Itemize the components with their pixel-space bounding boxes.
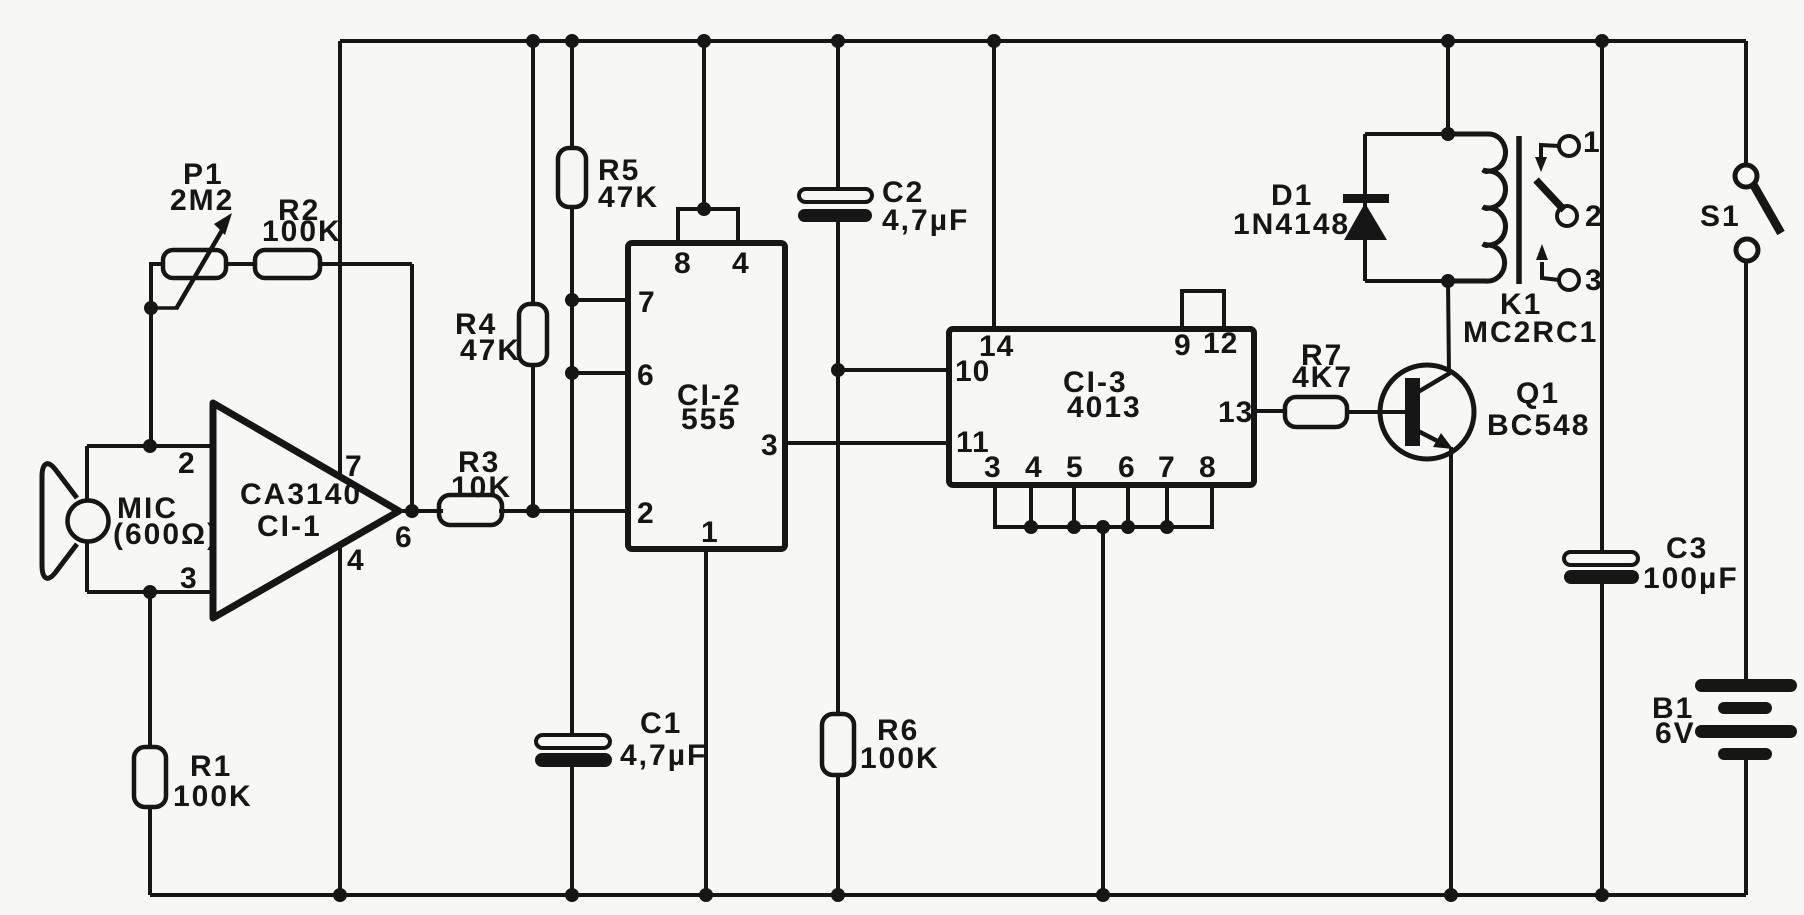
svg-text:3: 3 bbox=[1585, 264, 1604, 297]
node mic pin3 bbox=[143, 585, 157, 599]
IC U3 4013 CI-3 bbox=[949, 291, 1254, 485]
svg-text:(600Ω): (600Ω) bbox=[113, 518, 219, 551]
wire relay loop bottom bbox=[1365, 279, 1493, 283]
transistor Q1 BC548 bbox=[1380, 365, 1590, 459]
wire R4 top lead bbox=[531, 41, 535, 304]
relay contact 3 bbox=[1536, 244, 1579, 290]
wire 4013 bus to ground bbox=[1101, 527, 1105, 895]
svg-text:CI-1: CI-1 bbox=[257, 510, 322, 543]
node ground C3 bbox=[1595, 888, 1609, 902]
svg-text:100K: 100K bbox=[860, 742, 940, 775]
node bus pin4 bbox=[1024, 520, 1038, 534]
wire op-amp pin2 (mic top) bbox=[87, 444, 213, 448]
svg-text:12: 12 bbox=[1203, 327, 1238, 360]
svg-text:13: 13 bbox=[1218, 396, 1253, 429]
relay contact 1 bbox=[1535, 136, 1579, 172]
node ground op-amp bbox=[333, 888, 347, 902]
wire 4013 pin 14 to rail bbox=[992, 41, 996, 329]
node top rail relay bbox=[1441, 34, 1455, 48]
wire relay feed vertical bbox=[1446, 41, 1450, 134]
svg-text:100K: 100K bbox=[262, 215, 342, 248]
svg-text:CA3140: CA3140 bbox=[240, 478, 362, 511]
node bus pin5 bbox=[1067, 520, 1081, 534]
wire diode D1 vertical lead bbox=[1363, 134, 1367, 281]
svg-text:Q1: Q1 bbox=[1516, 377, 1560, 410]
svg-text:100K: 100K bbox=[173, 780, 253, 813]
node R4 555 pin2 bbox=[526, 504, 540, 518]
node top rail 555 bbox=[697, 34, 711, 48]
node ground Q1 emitter bbox=[1444, 888, 1458, 902]
node top rail R5 bbox=[565, 34, 579, 48]
svg-text:MC2RC1: MC2RC1 bbox=[1463, 316, 1598, 349]
wire 4013 pin 13 to R7 bbox=[1254, 409, 1285, 413]
wire op-amp output to R3 bbox=[397, 509, 443, 513]
svg-text:8: 8 bbox=[1199, 451, 1217, 484]
svg-text:4: 4 bbox=[732, 247, 750, 280]
wire 4013 pin 5 stub bbox=[1072, 485, 1076, 527]
wire R1 top lead bbox=[148, 592, 152, 747]
svg-text:10K: 10K bbox=[451, 471, 512, 504]
svg-text:R1: R1 bbox=[190, 750, 232, 783]
node top rail 4013 bbox=[987, 34, 1001, 48]
wire relay to Q1 collector bbox=[1448, 281, 1449, 374]
resistor R6 100K bbox=[822, 714, 940, 775]
wire R7 to Q1 base bbox=[1347, 410, 1406, 414]
resistor R7 4K7 bbox=[1285, 339, 1353, 427]
svg-text:6: 6 bbox=[395, 521, 413, 554]
wire 4013 pin 4 stub bbox=[1029, 485, 1033, 527]
wire op-amp supply vertical (pins 7/4) bbox=[338, 41, 342, 895]
wire C1 bottom lead bbox=[570, 766, 574, 895]
wire R1 bottom lead bbox=[148, 807, 152, 895]
relay contact 2 bbox=[1557, 206, 1577, 226]
svg-text:6: 6 bbox=[637, 359, 655, 392]
svg-text:1: 1 bbox=[1583, 126, 1602, 159]
node op-amp output bbox=[405, 504, 419, 518]
svg-text:4K7: 4K7 bbox=[1292, 361, 1353, 394]
wire 555 pin 6 bbox=[572, 371, 628, 375]
wire 555 pin 7 bbox=[572, 298, 628, 302]
svg-text:2: 2 bbox=[178, 447, 196, 480]
svg-text:1: 1 bbox=[701, 516, 719, 549]
svg-text:C3: C3 bbox=[1666, 532, 1708, 565]
relay core bar bbox=[1516, 136, 1522, 284]
wire left column P1 to pin2 bbox=[151, 264, 163, 446]
wire C2 bottom to R6 bbox=[836, 219, 840, 714]
wire R5 bottom to C1 bbox=[570, 207, 574, 737]
resistor R4 47K bbox=[455, 304, 547, 367]
svg-text:4,7µF: 4,7µF bbox=[882, 204, 969, 237]
node P1 wiper bbox=[144, 301, 158, 315]
wire 4013 pin 10 bbox=[838, 368, 949, 372]
svg-text:10: 10 bbox=[955, 355, 990, 388]
wire mic left vertical bbox=[85, 446, 89, 592]
resistor R5 47K bbox=[558, 148, 659, 214]
svg-text:2: 2 bbox=[637, 497, 655, 530]
wire R5 top lead bbox=[570, 41, 574, 148]
wire R3 to 555 pin 2 bbox=[499, 509, 628, 513]
IC U2 555 CI-2 bbox=[628, 209, 785, 549]
svg-text:7: 7 bbox=[1158, 451, 1176, 484]
node mic pin2 bbox=[143, 439, 157, 453]
svg-text:S1: S1 bbox=[1700, 200, 1741, 233]
wire S1 to battery bbox=[1744, 259, 1748, 681]
node top rail C3 bbox=[1595, 34, 1609, 48]
svg-text:6: 6 bbox=[1118, 451, 1136, 484]
svg-text:3: 3 bbox=[761, 429, 779, 462]
svg-text:1N4148: 1N4148 bbox=[1233, 208, 1350, 241]
svg-text:7: 7 bbox=[638, 286, 656, 319]
relay K1 MC2RC1 coil bbox=[1448, 134, 1519, 284]
svg-text:5: 5 bbox=[1066, 451, 1084, 484]
svg-text:BC548: BC548 bbox=[1487, 409, 1590, 442]
wire C3 bottom lead bbox=[1600, 583, 1604, 895]
node ground R6 bbox=[831, 888, 845, 902]
node ground C1 bbox=[565, 888, 579, 902]
capacitor C2 4,7uF bbox=[798, 176, 969, 237]
node relay top bbox=[1441, 127, 1455, 141]
wire C2 top lead bbox=[836, 41, 840, 190]
node 555 pin6 bbox=[565, 366, 579, 380]
svg-text:3: 3 bbox=[984, 451, 1002, 484]
svg-text:6V: 6V bbox=[1655, 717, 1696, 750]
node 4013 pin10 C2 bbox=[831, 363, 845, 377]
svg-text:4: 4 bbox=[1025, 451, 1043, 484]
wire Q1 emitter to ground bbox=[1449, 447, 1453, 895]
node bus pin6 bbox=[1121, 520, 1135, 534]
wire bottom ground rail bbox=[150, 893, 1746, 897]
svg-text:555: 555 bbox=[681, 403, 737, 436]
svg-text:100µF: 100µF bbox=[1643, 562, 1739, 595]
capacitor C1 4,7uF bbox=[535, 707, 707, 772]
svg-text:9: 9 bbox=[1174, 329, 1192, 362]
node 555 notch bbox=[697, 202, 711, 216]
wire C3 top lead bbox=[1600, 41, 1604, 554]
node ground 555 pin1 bbox=[699, 888, 713, 902]
op-amp U1 CA3140 CI-1 bbox=[213, 403, 399, 618]
svg-text:4013: 4013 bbox=[1067, 391, 1142, 424]
battery B1 6V bbox=[1695, 679, 1797, 760]
potentiometer P1 2M2 bbox=[151, 158, 234, 309]
resistor R3 10K bbox=[439, 446, 512, 525]
node top rail C2 bbox=[831, 34, 845, 48]
svg-text:7: 7 bbox=[345, 450, 363, 483]
svg-text:47K: 47K bbox=[460, 334, 521, 367]
capacitor C3 100uF bbox=[1564, 532, 1739, 595]
svg-text:47K: 47K bbox=[598, 181, 659, 214]
svg-text:4: 4 bbox=[347, 544, 365, 577]
svg-text:2: 2 bbox=[1585, 200, 1604, 233]
node 555 pin7 bbox=[565, 293, 579, 307]
node top rail R4 bbox=[526, 34, 540, 48]
resistor R2 100K bbox=[255, 194, 342, 278]
wire 4013 ground bus bbox=[995, 485, 1212, 527]
wire feedback vertical to op-amp output bbox=[410, 264, 414, 511]
wire top supply rail bbox=[340, 39, 1746, 43]
wire 4013 pin 6 stub bbox=[1126, 485, 1130, 527]
wire battery to ground rail bbox=[1744, 757, 1748, 895]
wire R6 bottom lead bbox=[836, 775, 840, 895]
wire 555 pin 3 to 4013 pin 11 bbox=[785, 441, 949, 445]
wire S1 top lead bbox=[1744, 41, 1748, 166]
microphone MIC (600 ohm) bbox=[42, 464, 109, 579]
wire 4013 pin 7 stub bbox=[1165, 485, 1169, 527]
switch S1 bbox=[1700, 165, 1781, 261]
node bus center bbox=[1096, 520, 1110, 534]
relay moving arm bbox=[1536, 180, 1564, 210]
wire 555 pin 1 to ground bbox=[704, 549, 708, 895]
wire P1 to R2 bbox=[226, 262, 255, 266]
wire R2 to feedback corner bbox=[320, 262, 412, 266]
wire op-amp pin3 (mic bottom) bbox=[87, 590, 213, 594]
svg-text:3: 3 bbox=[180, 562, 198, 595]
wire relay loop top bbox=[1365, 132, 1493, 136]
svg-text:2M2: 2M2 bbox=[170, 184, 234, 217]
wire R4 bottom lead bbox=[531, 365, 535, 511]
svg-text:4,7µF: 4,7µF bbox=[620, 739, 707, 772]
wire 555 notch to rail bbox=[702, 41, 706, 209]
resistor R1 100K bbox=[134, 747, 253, 813]
diode D1 1N4148 bbox=[1233, 179, 1389, 241]
node bus pin7 bbox=[1160, 520, 1174, 534]
node relay bottom bbox=[1441, 274, 1455, 288]
svg-text:8: 8 bbox=[674, 247, 692, 280]
node ground 4013 bbox=[1096, 888, 1110, 902]
svg-text:C1: C1 bbox=[640, 707, 682, 740]
